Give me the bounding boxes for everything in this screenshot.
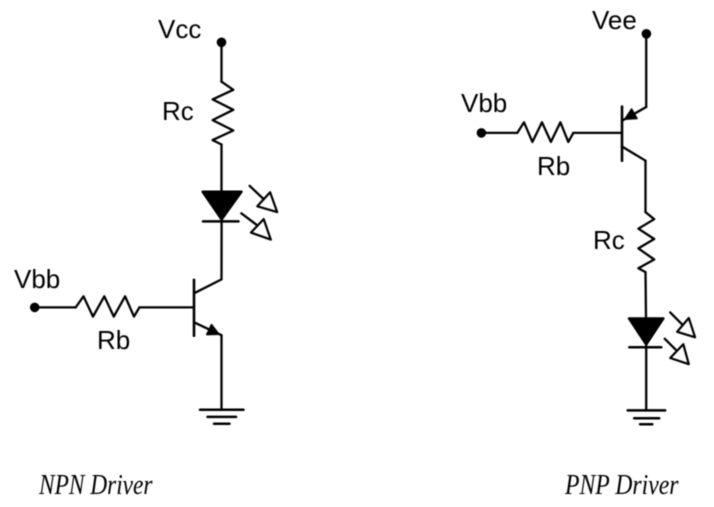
svg-text:Rc: Rc	[593, 225, 625, 255]
LED D2 cathode bar	[629, 346, 661, 349]
ground (left)	[200, 410, 244, 424]
caption PNP Driver	[564, 469, 679, 501]
node Vcc label	[158, 14, 201, 44]
terminal dot Vbb (left)	[30, 303, 40, 313]
transistor Q1 emitter	[194, 322, 222, 335]
terminal dot Vee	[642, 29, 652, 39]
LED D1 light arrow upper	[250, 186, 278, 212]
label Rb (right)	[537, 151, 570, 181]
wire Vbb to Rb (left)	[35, 306, 76, 308]
svg-text:Rb: Rb	[97, 325, 130, 355]
resistor Rb (left)	[76, 296, 140, 316]
LED D1 triangle (anode)	[203, 192, 242, 220]
svg-text:Vbb: Vbb	[14, 264, 60, 294]
terminal dot Vbb (right)	[477, 128, 487, 138]
resistor Rc (right)	[638, 212, 654, 272]
LED D1 cathode bar	[203, 220, 239, 223]
label Rb (left)	[97, 325, 130, 355]
transistor Q2 emitter	[622, 107, 646, 121]
svg-text:Vee: Vee	[592, 5, 637, 35]
wire Rc to LED D2	[644, 272, 647, 318]
wire Vee to Q2 emitter	[645, 34, 647, 107]
LED D2 light arrow upper	[670, 312, 695, 337]
svg-text:Rc: Rc	[162, 96, 194, 126]
wire Q1 emitter to ground	[220, 335, 222, 410]
terminal dot Vcc	[217, 38, 227, 48]
node Vee label	[592, 5, 637, 35]
svg-text:Rb: Rb	[537, 151, 570, 181]
transistor Q1 emitter arrowhead	[207, 325, 219, 335]
ground (right)	[628, 410, 666, 424]
wire LED D1 to Q1 collector	[220, 220, 222, 280]
LED D2 light arrow lower	[665, 339, 689, 365]
label Rc (left)	[162, 96, 194, 126]
caption NPN Driver	[38, 469, 153, 501]
transistor Q2 emitter arrowhead	[625, 109, 637, 119]
LED D2 triangle (anode)	[629, 318, 664, 344]
svg-text:Vcc: Vcc	[158, 14, 201, 44]
label Rc (right)	[593, 225, 625, 255]
svg-text:Vbb: Vbb	[461, 88, 507, 118]
LED D1 light arrow lower	[241, 213, 270, 239]
svg-text:NPN Driver: NPN Driver	[38, 469, 153, 501]
transistor Q2 base bar	[621, 107, 624, 161]
svg-text:PNP Driver: PNP Driver	[564, 469, 679, 501]
wire Vcc to Rc	[220, 42, 222, 81]
wire Rb to Q2 base	[573, 132, 622, 134]
wire Q2 collector to Rc (right)	[644, 161, 646, 212]
transistor Q1 base bar	[193, 280, 196, 336]
node Vbb label (right)	[461, 88, 507, 118]
resistor Rb (right)	[517, 122, 573, 142]
wire LED D2 to ground	[645, 345, 647, 411]
wire Rb to Q1 base	[139, 306, 194, 308]
wire Vbb to Rb (right)	[481, 132, 517, 134]
transistor Q1 collector	[194, 279, 222, 293]
node Vbb label (left)	[14, 264, 60, 294]
transistor Q2 collector	[622, 147, 646, 161]
resistor Rc (left)	[213, 82, 234, 145]
wire Rc to LED D1	[220, 145, 222, 193]
